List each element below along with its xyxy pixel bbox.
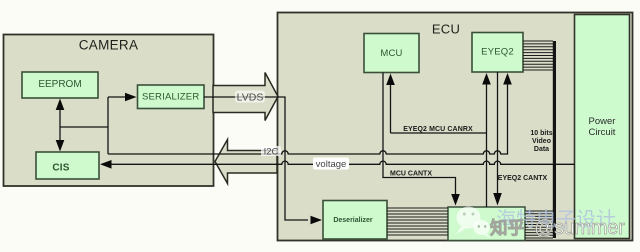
label LVDS: [235, 91, 265, 103]
svg-text:10 bits: 10 bits: [530, 130, 552, 137]
wire CANRX horizontal MCU to EYEQ2 riser: [391, 132, 487, 134]
svg-text:Video: Video: [532, 138, 551, 145]
arrowhead into CAN box (MCU CANTX): [451, 194, 460, 206]
arrowhead into EYEQ2 (I2C): [503, 73, 512, 85]
EYEQ2 box: [472, 33, 523, 73]
wire CANRX riser to EYEQ2: [486, 84, 488, 207]
video bus vertical: [553, 41, 556, 238]
svg-text:I2C: I2C: [264, 147, 279, 158]
svg-text:知乎: 知乎: [490, 218, 525, 238]
svg-text:ECU: ECU: [432, 22, 460, 37]
arrowhead into CAN box (EYEQ2 CANTX): [493, 193, 502, 206]
MCU box: [364, 34, 419, 73]
wire EYEQ2 CANTX: [497, 72, 499, 193]
Deserializer box: [323, 201, 387, 240]
CIS box: [36, 152, 99, 179]
ECU enclosure: [278, 13, 633, 241]
arrowhead into EEPROM: [56, 99, 65, 111]
wire voltage net with hops: [111, 161, 575, 164]
CAN box (label hidden by watermark): [448, 207, 525, 241]
SERIALIZER box: [138, 85, 205, 109]
arrowhead into CIS right (voltage): [100, 160, 112, 169]
video ribbon EYEQ2 to bus: [523, 41, 553, 70]
CAMERA enclosure: [4, 35, 214, 187]
svg-text:EYEQ2 MCU CANRX: EYEQ2 MCU CANRX: [403, 126, 473, 133]
svg-text:MCU CANTX: MCU CANTX: [390, 171, 432, 178]
svg-text:CAMERA: CAMERA: [79, 38, 139, 53]
svg-text:Circuit: Circuit: [589, 127, 616, 138]
watermark wechat icon: [457, 207, 491, 239]
EEPROM box: [22, 72, 98, 98]
wire I2C riser: [107, 97, 109, 154]
svg-text:EEPROM: EEPROM: [38, 79, 81, 90]
svg-text:MCU: MCU: [380, 48, 402, 59]
svg-text:LVDS: LVDS: [237, 92, 264, 104]
svg-text:Data: Data: [534, 146, 549, 153]
wire MCU CANTX: [383, 73, 456, 195]
I2C block arrow: [215, 140, 277, 184]
svg-text:EYEQ2 CANTX: EYEQ2 CANTX: [498, 175, 548, 182]
video ribbon bus to CAN box: [525, 211, 553, 238]
svg-text:CIS: CIS: [52, 163, 69, 174]
arrowhead into Deserializer: [311, 216, 323, 225]
power circuit U5: [575, 15, 630, 239]
svg-text:Deserializer: Deserializer: [333, 217, 373, 224]
arrowhead into CIS top: [56, 140, 65, 152]
LVDS block arrow: [213, 73, 278, 121]
svg-text:Power: Power: [589, 116, 616, 127]
wire serializer input: [108, 96, 125, 98]
wire EEPROM/CIS branch: [60, 126, 108, 128]
wire EEPROM-CIS vertical: [59, 108, 61, 141]
wire LVDS net: [204, 97, 308, 220]
wire I2C net with hops: [108, 84, 508, 154]
label I2C: [261, 146, 281, 156]
wire EYEQ2 MCU CANRX: [390, 84, 392, 133]
svg-text:EYEQ2: EYEQ2: [481, 47, 514, 58]
arrowhead into SERIALIZER: [125, 93, 137, 102]
svg-text:voltage: voltage: [316, 159, 347, 170]
label voltage: [313, 158, 349, 170]
arrowhead into EYEQ2 (CANRX): [482, 73, 491, 85]
svg-text:@summer: @summer: [534, 217, 625, 239]
arrowhead into MCU (CANRX): [386, 74, 395, 86]
svg-text:SERIALIZER: SERIALIZER: [142, 92, 199, 103]
video ribbon CAN box to Deserializer: [387, 208, 448, 235]
